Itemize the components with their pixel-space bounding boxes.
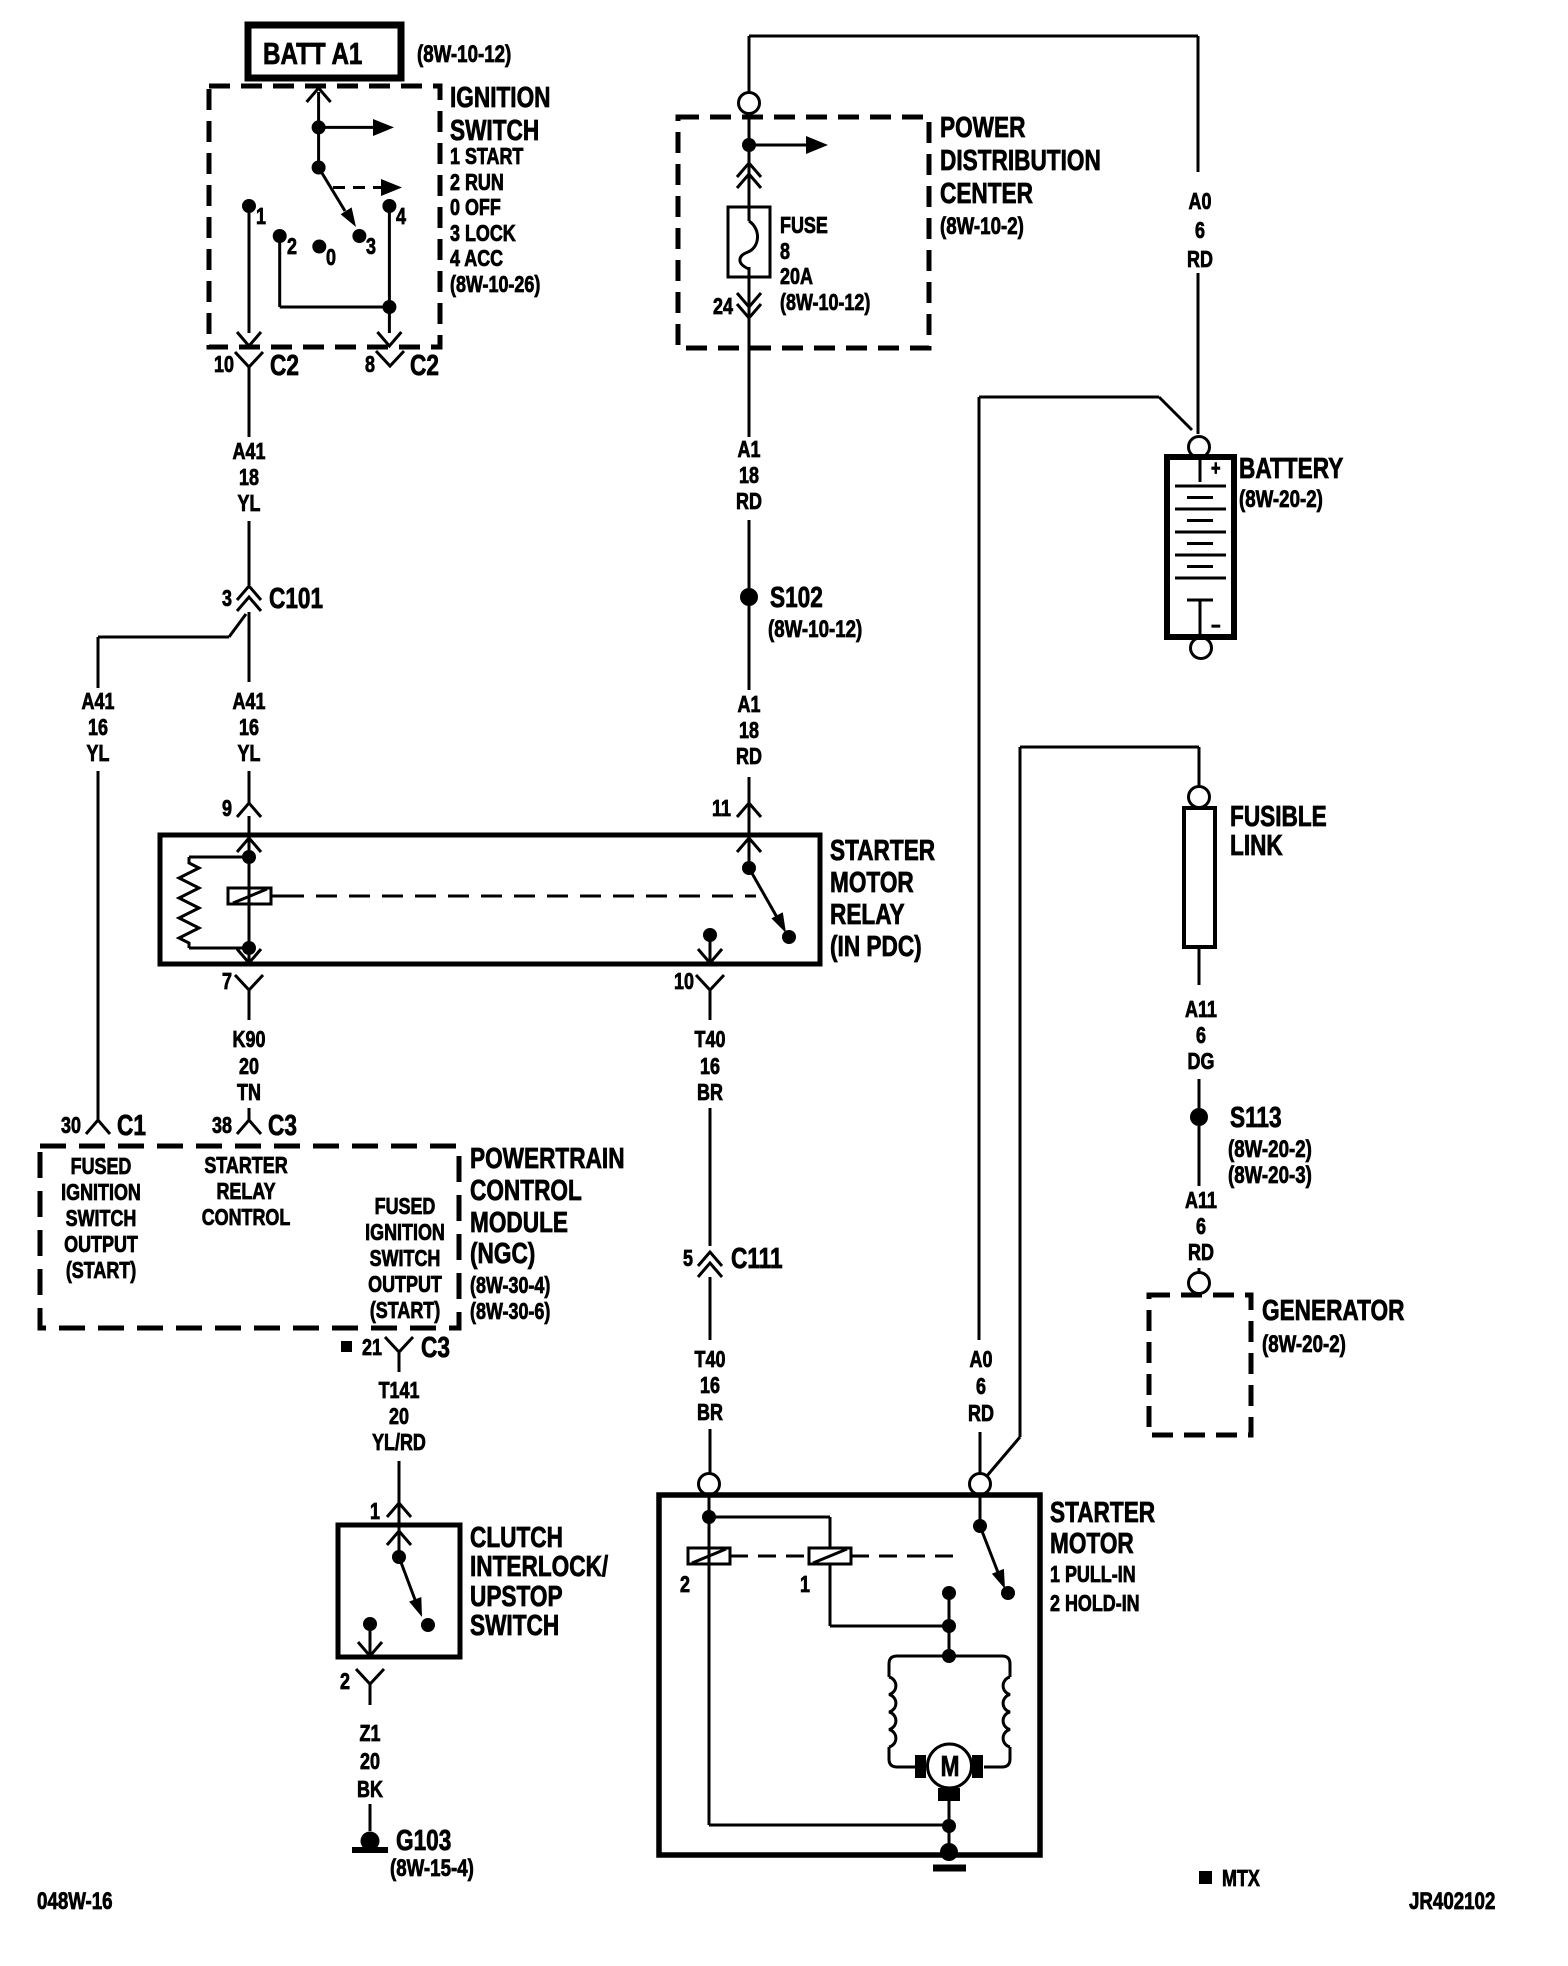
svg-text:21: 21 [362, 1335, 382, 1361]
svg-text:(8W-20-2): (8W-20-2) [1239, 486, 1323, 513]
svg-text:0 OFF: 0 OFF [450, 195, 501, 221]
svg-text:YL: YL [238, 491, 261, 517]
svg-text:18: 18 [239, 465, 259, 491]
svg-text:JR402102: JR402102 [1409, 1888, 1495, 1915]
svg-text:4 ACC: 4 ACC [450, 246, 503, 272]
svg-text:SWITCH: SWITCH [66, 1206, 137, 1232]
svg-text:T40: T40 [695, 1347, 726, 1373]
svg-text:FUSE: FUSE [780, 213, 828, 239]
svg-text:BR: BR [697, 1400, 723, 1426]
svg-text:5: 5 [683, 1246, 693, 1272]
svg-text:(8W-10-12): (8W-10-12) [768, 616, 862, 643]
svg-text:SWITCH: SWITCH [370, 1246, 441, 1272]
svg-text:(8W-20-2): (8W-20-2) [1262, 1331, 1346, 1358]
svg-text:K90: K90 [233, 1027, 266, 1053]
svg-text:10: 10 [674, 969, 694, 995]
svg-text:IGNITION: IGNITION [365, 1220, 445, 1246]
svg-text:(8W-30-6): (8W-30-6) [470, 1299, 550, 1325]
svg-text:2 HOLD-IN: 2 HOLD-IN [1050, 1591, 1140, 1617]
svg-text:M: M [941, 1749, 960, 1782]
svg-text:10: 10 [214, 352, 234, 378]
svg-text:SWITCH: SWITCH [470, 1608, 559, 1641]
svg-text:POWER: POWER [940, 110, 1026, 143]
svg-text:BATTERY: BATTERY [1239, 451, 1343, 484]
svg-text:3 LOCK: 3 LOCK [450, 221, 516, 247]
svg-text:LINK: LINK [1230, 828, 1283, 861]
svg-text:8: 8 [365, 352, 375, 378]
svg-text:DG: DG [1188, 1049, 1215, 1075]
svg-text:18: 18 [739, 718, 759, 744]
svg-text:20: 20 [360, 1749, 380, 1775]
svg-text:C2: C2 [270, 348, 299, 381]
svg-text:MOTOR: MOTOR [830, 865, 914, 898]
svg-text:A41: A41 [233, 689, 266, 715]
svg-text:IGNITION: IGNITION [61, 1180, 141, 1206]
svg-text:18: 18 [739, 463, 759, 489]
svg-text:A41: A41 [233, 439, 266, 465]
svg-text:(8W-10-12): (8W-10-12) [780, 290, 870, 316]
svg-text:RD: RD [1187, 247, 1213, 273]
svg-text:Z1: Z1 [360, 1721, 381, 1747]
svg-text:−: − [1211, 614, 1221, 637]
svg-text:YL: YL [87, 741, 110, 767]
svg-text:G103: G103 [396, 1823, 451, 1856]
svg-text:RD: RD [1188, 1240, 1214, 1266]
svg-text:3: 3 [222, 586, 232, 612]
svg-text:A1: A1 [738, 437, 761, 463]
svg-text:8: 8 [780, 239, 790, 265]
svg-text:MOTOR: MOTOR [1050, 1526, 1134, 1559]
svg-text:S113: S113 [1230, 1100, 1282, 1133]
svg-text:DISTRIBUTION: DISTRIBUTION [940, 143, 1101, 176]
svg-text:S102: S102 [770, 580, 823, 613]
svg-text:CONTROL: CONTROL [470, 1173, 582, 1206]
svg-text:RD: RD [968, 1401, 994, 1427]
svg-text:0: 0 [326, 245, 336, 271]
svg-text:T40: T40 [695, 1027, 726, 1053]
svg-text:6: 6 [1196, 1023, 1206, 1049]
svg-text:BK: BK [357, 1777, 383, 1803]
svg-text:STARTER: STARTER [204, 1153, 287, 1179]
svg-text:20: 20 [389, 1404, 409, 1430]
svg-text:TN: TN [237, 1080, 261, 1106]
svg-text:GENERATOR: GENERATOR [1262, 1293, 1405, 1326]
svg-text:OUTPUT: OUTPUT [64, 1232, 138, 1258]
svg-text:SWITCH: SWITCH [450, 113, 539, 146]
svg-text:CENTER: CENTER [940, 176, 1033, 209]
svg-text:2: 2 [340, 1669, 350, 1695]
svg-text:INTERLOCK/: INTERLOCK/ [470, 1549, 608, 1582]
svg-text:6: 6 [1196, 1214, 1206, 1240]
svg-text:RELAY: RELAY [216, 1179, 275, 1205]
svg-text:MTX: MTX [1222, 1866, 1260, 1892]
svg-text:1: 1 [800, 1572, 810, 1598]
svg-text:RD: RD [736, 744, 762, 770]
svg-text:A11: A11 [1185, 1188, 1217, 1214]
svg-text:C3: C3 [268, 1108, 297, 1141]
svg-text:20: 20 [239, 1054, 259, 1080]
svg-text:1 PULL-IN: 1 PULL-IN [1050, 1562, 1136, 1588]
svg-text:16: 16 [700, 1373, 720, 1399]
svg-text:STARTER: STARTER [830, 833, 935, 866]
svg-text:24: 24 [713, 294, 733, 320]
svg-text:(8W-10-2): (8W-10-2) [940, 213, 1024, 240]
svg-text:IGNITION: IGNITION [450, 80, 551, 113]
svg-text:(8W-20-3): (8W-20-3) [1228, 1162, 1312, 1189]
svg-text:A11: A11 [1185, 997, 1217, 1023]
svg-text:4: 4 [396, 204, 406, 230]
svg-text:2 RUN: 2 RUN [450, 170, 504, 196]
svg-text:16: 16 [700, 1054, 720, 1080]
svg-text:1: 1 [256, 204, 266, 230]
svg-text:T141: T141 [379, 1378, 420, 1404]
svg-text:38: 38 [212, 1113, 232, 1139]
svg-text:(8W-20-2): (8W-20-2) [1228, 1136, 1312, 1163]
svg-text:A41: A41 [82, 689, 115, 715]
svg-text:1: 1 [370, 1499, 380, 1525]
svg-text:FUSED: FUSED [71, 1154, 132, 1180]
svg-text:16: 16 [239, 715, 259, 741]
svg-text:BATT A1: BATT A1 [263, 36, 362, 71]
svg-text:CONTROL: CONTROL [202, 1205, 291, 1231]
svg-text:30: 30 [61, 1113, 81, 1139]
svg-text:(IN PDC): (IN PDC) [830, 929, 922, 962]
svg-text:FUSED: FUSED [375, 1194, 436, 1220]
svg-text:1 START: 1 START [450, 144, 524, 170]
svg-text:OUTPUT: OUTPUT [368, 1272, 442, 1298]
svg-text:+: + [1211, 456, 1221, 479]
svg-text:6: 6 [976, 1374, 986, 1400]
svg-text:6: 6 [1195, 218, 1205, 244]
svg-text:20A: 20A [780, 264, 813, 290]
svg-text:(START): (START) [370, 1298, 440, 1324]
svg-text:MODULE: MODULE [470, 1205, 568, 1238]
svg-text:C3: C3 [421, 1330, 450, 1363]
svg-text:(8W-10-26): (8W-10-26) [450, 272, 540, 298]
svg-text:RELAY: RELAY [830, 897, 905, 930]
svg-text:A0: A0 [1189, 189, 1212, 215]
svg-text:BR: BR [697, 1080, 723, 1106]
svg-text:C101: C101 [269, 581, 323, 614]
svg-text:(8W-15-4): (8W-15-4) [390, 1855, 474, 1882]
svg-text:(START): (START) [66, 1258, 136, 1284]
svg-text:048W-16: 048W-16 [37, 1888, 113, 1915]
svg-text:YL: YL [238, 741, 261, 767]
svg-text:7: 7 [222, 969, 232, 995]
svg-text:C1: C1 [117, 1108, 146, 1141]
svg-text:9: 9 [222, 796, 232, 822]
svg-text:POWERTRAIN: POWERTRAIN [470, 1141, 625, 1174]
svg-text:11: 11 [712, 796, 731, 822]
svg-text:(NGC): (NGC) [470, 1236, 535, 1269]
svg-text:(8W-10-12): (8W-10-12) [417, 41, 511, 68]
svg-text:C111: C111 [731, 1241, 783, 1274]
svg-text:YL/RD: YL/RD [372, 1430, 426, 1456]
svg-text:3: 3 [366, 234, 376, 260]
svg-text:2: 2 [287, 234, 297, 260]
svg-text:RD: RD [736, 489, 762, 515]
svg-text:(8W-30-4): (8W-30-4) [470, 1273, 550, 1299]
svg-text:A0: A0 [970, 1347, 993, 1373]
svg-text:2: 2 [680, 1572, 690, 1598]
svg-text:C2: C2 [410, 348, 439, 381]
svg-text:STARTER: STARTER [1050, 1495, 1155, 1528]
svg-text:A1: A1 [738, 692, 761, 718]
svg-text:16: 16 [88, 715, 108, 741]
